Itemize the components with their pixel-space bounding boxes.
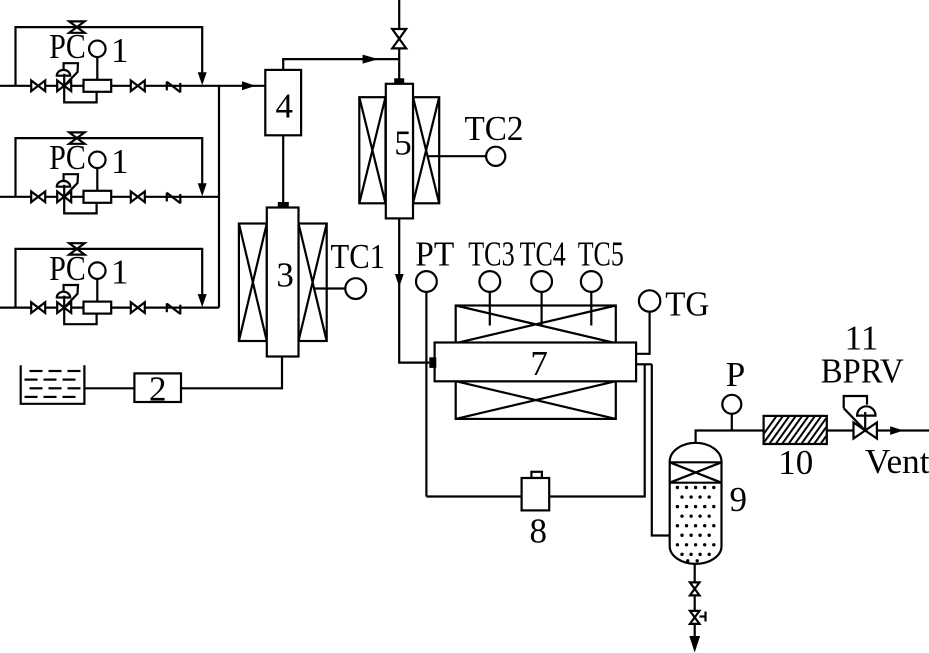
wire: feed line 1 main pipe [0,85,265,87]
instrument bubble TC5 [581,271,602,292]
heater block 3 right [299,224,327,342]
DP cell 8 fitting [531,472,542,478]
regulator stem line 1 [63,74,65,86]
regulator stem line 3 [63,296,65,308]
wire: instrument stem line 1 [96,57,98,80]
regulator actuator dome line 3 [57,292,70,298]
flow arrow into mixer 4 [242,81,256,90]
valve bypass line 3 [69,243,84,249]
svg-text:PC: PC [49,138,86,177]
wire: bypass loop line 1 [16,27,203,86]
valve outlet isolation line 3 [131,302,138,313]
flow arrow bypass into main line 3 [198,294,207,307]
wire: reactor outlet to separator [652,364,670,535]
svg-text:1: 1 [111,31,129,70]
wire: TC3 stem [489,293,491,326]
svg-text:TC2: TC2 [465,109,524,148]
svg-text:9: 9 [730,480,748,519]
mixer vessel 4 [265,70,301,135]
instrument bubble PC line 1 [89,41,106,58]
BPRV flag stem [844,408,866,430]
wire: TC2 tap [428,155,487,157]
column 5 top fitting [394,78,404,84]
BPRV valve body [854,423,866,439]
wire: reactor outlet to DP cell right leg [549,364,645,496]
valve inlet isolation line 1 [31,80,38,91]
tank liquid dashes [30,370,43,372]
instrument bubble PC line 3 [89,262,106,279]
mass flow controller body line 3 [84,302,112,314]
check valve line 3 [166,303,168,312]
heater block 7 lower [456,381,616,419]
svg-text:10: 10 [778,443,813,482]
wire: reactor upper outlet to TG [636,312,650,354]
svg-text:BPRV: BPRV [821,352,904,391]
wire: TC1 tap [313,287,345,289]
wire: instrument stem line 2 [96,168,98,191]
instrument bubble TC3 [479,271,500,292]
regulator flag line 2 [64,174,78,197]
valve inlet isolation line 3 [31,302,38,313]
flow arrow drain outlet [689,636,700,653]
wire: collector manifold [218,86,220,308]
wire: instrument stem line 3 [96,279,98,302]
wire: mixer 4 outlet riser [283,59,399,70]
flow arrow to vaporizer feed [363,55,379,64]
wire: separator neck to vent line [696,431,764,444]
wire: regulator feedback loop line 2 [64,197,96,214]
wire: regulator feedback loop line 3 [64,308,96,325]
valve outlet isolation line 1 [131,80,138,91]
separator demister band [670,461,722,463]
svg-text:8: 8 [529,511,547,550]
instrument bubble TC1 [345,278,366,299]
flow arrow bypass into main line 1 [198,72,207,85]
wire: bypass loop line 2 [16,138,203,197]
wire: feed line 3 main pipe [0,307,219,309]
separator 9 shell [670,443,722,564]
svg-text:4: 4 [275,87,293,126]
svg-text:7: 7 [530,344,548,383]
svg-text:5: 5 [394,124,412,163]
BPRV stem [864,412,866,431]
wire: separator to vent line segment [827,429,929,431]
instrument bubble PT [416,271,437,292]
svg-text:Vent: Vent [865,442,929,481]
svg-text:TC1: TC1 [331,237,386,276]
instrument bubble P [722,395,741,414]
mass flow controller body line 2 [84,191,112,203]
valve bypass line 2 [69,132,84,138]
valve outlet isolation line 2 [131,191,138,202]
svg-text:1: 1 [111,253,129,292]
flow arrow down to reactor feed [395,274,404,287]
regulator valve body line 3 [57,302,64,313]
drain valve handle [700,615,706,617]
wire: reactor lower outlet stub [636,363,652,365]
valve drain lower [690,611,700,618]
heater block 5 right [413,97,439,203]
wire: separator drain [694,564,696,637]
column 5 body [386,84,413,219]
heater block 3 left [239,224,267,342]
valve top feed [392,29,406,39]
instrument bubble PC line 2 [89,152,106,169]
wire: mixer 4 to column 3 [282,135,284,202]
column 3 top fitting [278,202,289,208]
instrument bubble TC4 [531,271,552,292]
wire: bypass loop line 3 [16,249,203,308]
mass flow controller body line 1 [84,80,112,92]
svg-text:PT: PT [415,234,454,273]
wire: P stem [731,414,733,431]
regulator valve body line 1 [57,80,64,91]
reactor tube 7 [435,343,636,382]
regulator actuator dome line 2 [57,181,70,187]
valve bypass line 1 [69,21,84,27]
wire: DP cell left leg [426,495,521,497]
regulator flag line 3 [64,285,78,308]
heater block 5 left [359,97,385,203]
DP cell 8 body [522,478,550,510]
regulator valve body line 2 [57,191,64,202]
reactor inlet fitting [429,357,436,368]
flow arrow vent [890,426,903,435]
regulator stem line 2 [63,185,65,197]
separator packing dots [676,486,679,489]
check valve line 1 [166,82,168,91]
heater block 7 upper [456,306,616,344]
pump 2 [134,373,181,402]
wire: pump to column 3 [181,357,282,389]
wire: regulator feedback loop line 1 [64,86,96,103]
wire: TC5 stem [590,293,592,326]
valve drain upper [690,582,700,589]
liquid tank [21,365,85,404]
wire: tank outlet [84,387,134,389]
filter 10 body [764,416,827,444]
instrument bubble TC2 [486,147,505,166]
svg-text:TC5: TC5 [578,234,624,273]
flow arrow bypass into main line 2 [198,183,207,196]
svg-text:3: 3 [276,256,294,295]
svg-text:PC: PC [49,27,86,66]
BPRV flag [844,396,867,408]
svg-text:PC: PC [49,249,86,288]
wire: TC4 stem [540,293,542,326]
svg-text:TC4: TC4 [520,234,566,273]
svg-text:TC3: TC3 [468,234,515,273]
column 3 body [267,208,299,357]
wire: column 5 outlet to reactor [399,218,429,362]
svg-text:TG: TG [665,285,709,324]
regulator actuator dome line 1 [57,70,70,76]
BPRV actuator dome [857,406,875,415]
check valve line 2 [166,193,168,202]
svg-text:1: 1 [111,142,129,181]
valve inlet isolation line 2 [31,191,38,202]
wire: feed line 2 main pipe [0,196,219,198]
regulator flag line 1 [64,63,78,86]
wire: gas feed from top [398,0,400,79]
wire: PT stem and DP left leg [425,293,427,497]
svg-text:2: 2 [149,369,167,408]
svg-text:P: P [726,355,745,394]
instrument bubble TG [639,290,660,311]
